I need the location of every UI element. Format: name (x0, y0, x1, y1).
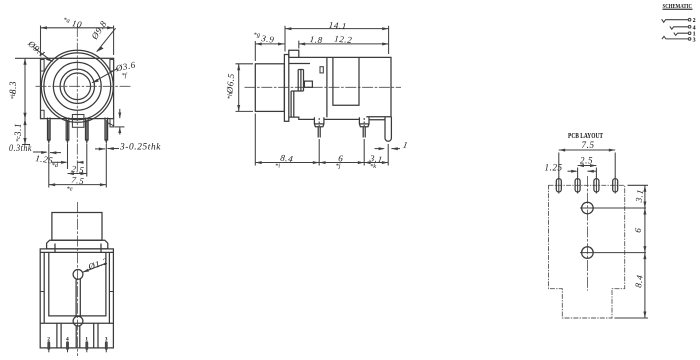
label 0.3thk with leader (9, 143, 61, 154)
dimension 1 (right tab) (105, 109, 124, 135)
svg-text:*i: *i (275, 163, 280, 170)
body square outline (41, 58, 114, 118)
leader D9.8 (89, 19, 116, 52)
svg-text:*c: *c (15, 136, 22, 142)
svg-text:3.1: 3.1 (633, 188, 645, 203)
pad 1 (556, 177, 561, 194)
center slot (76, 279, 80, 317)
svg-text:*d: *d (52, 162, 59, 169)
pad 2 (575, 177, 580, 194)
body front section line (326, 57, 328, 117)
svg-text:*k: *k (370, 163, 376, 170)
inner wall right (109, 252, 113, 323)
tab right top (110, 60, 114, 72)
tab left top (41, 60, 45, 72)
svg-text:2.5: 2.5 (71, 164, 85, 176)
svg-text:*a: *a (63, 17, 71, 25)
leader D1.2 (83, 256, 110, 272)
svg-text:3-0.25thk: 3-0.25thk (119, 142, 161, 152)
spring contact detail (289, 64, 313, 117)
dimension 7.5 *e (49, 144, 107, 193)
pin 3 (top view) (86, 118, 89, 146)
svg-text:12.2: 12.2 (334, 34, 353, 46)
pin 1 (top view) (48, 118, 51, 146)
svg-text:14.1: 14.1 (328, 20, 347, 32)
bent pin (right) (385, 117, 391, 142)
dimension 6 (pcb) (633, 208, 647, 253)
body outline (side view) (289, 57, 391, 119)
recess rectangle (333, 57, 359, 105)
footprint outline (549, 185, 625, 318)
dimension 14.1 (285, 20, 389, 54)
inner ring (60, 69, 94, 103)
svg-text:*h: *h (227, 93, 235, 100)
lower separators (57, 323, 98, 348)
pin 1 label and pin (front view) (85, 337, 88, 353)
flange plate (284, 55, 288, 122)
svg-text:*b: *b (10, 92, 17, 99)
dimension 8.4 (pcb) (615, 253, 649, 318)
dimension *b 8.3 (8, 58, 40, 119)
label 3-0.25thk with leader (95, 142, 161, 152)
SCHEMATIC title (663, 3, 693, 10)
centerline vertical (front view) (77, 202, 79, 356)
centerline horizontal (36, 85, 133, 87)
pin 2 label and pin (front view) (47, 337, 50, 353)
leader D3.6 (92, 59, 137, 82)
barrel (side view) (255, 64, 284, 112)
pin 4 label and pin (front view) (66, 337, 69, 353)
centerline vertical (76, 26, 78, 173)
svg-text:2.5: 2.5 (580, 156, 593, 166)
footprint centerline (586, 176, 588, 291)
svg-text:3: 3 (693, 38, 696, 44)
dimension 3.1 (pcb) (628, 185, 649, 208)
leg 1 (side view) (314, 117, 324, 137)
svg-text:10: 10 (71, 18, 83, 30)
svg-text:4: 4 (693, 25, 696, 31)
key tab on top (289, 50, 299, 57)
pad 4 (613, 177, 618, 194)
svg-text:8.4: 8.4 (280, 153, 294, 165)
dimension *a 10 (41, 17, 114, 55)
inner channel U (49, 252, 106, 316)
dimension 1.25 (pcb) (545, 163, 597, 173)
svg-text:0.3thk: 0.3thk (9, 143, 32, 153)
dimension 2.5 (68, 144, 87, 177)
dimension 2.5 (pcb) (578, 156, 597, 178)
dimension 1.8 / 12.2 (299, 34, 389, 49)
barrel circle D9.1 (44, 53, 111, 120)
svg-text:Ø6.5: Ø6.5 (224, 73, 236, 95)
PCB LAYOUT title (568, 132, 603, 140)
schematic wire pin 4 (670, 25, 696, 31)
pin 3 label and pin (front view) (105, 337, 108, 353)
svg-text:3.9: 3.9 (260, 33, 275, 45)
dimension 1.25 *d (35, 144, 84, 169)
tab bottom center (72, 115, 84, 128)
svg-text:7.5: 7.5 (71, 175, 85, 187)
dimension *g 3.9 (254, 32, 285, 62)
centerline horizontal (side view) (245, 86, 402, 88)
schematic wire pin 1 (674, 32, 696, 38)
svg-text:*e: *e (67, 186, 73, 193)
dimension *c 3.1 (13, 119, 30, 145)
svg-text:1.25: 1.25 (545, 163, 563, 173)
svg-text:8.3: 8.3 (8, 81, 18, 94)
svg-text:PCB LAYOUT: PCB LAYOUT (568, 132, 603, 140)
svg-text:3.1: 3.1 (13, 123, 23, 137)
svg-text:*g: *g (254, 32, 261, 39)
pin 4 (top view) (105, 118, 108, 146)
flange (front view) (47, 240, 108, 252)
svg-text:*j: *j (336, 163, 341, 170)
schematic wire pin 2 (662, 18, 696, 24)
hole circle D3.6 (64, 73, 91, 100)
hole circle D1.2 (73, 270, 83, 280)
pad 3 (594, 177, 599, 194)
inner wall left (40, 252, 44, 323)
hole 2 (pcb) (580, 247, 646, 259)
svg-text:1.8: 1.8 (309, 34, 323, 45)
dimension 8.4 *i / 6 *j / 3.1 *k (255, 114, 388, 171)
body (front view) (40, 249, 113, 348)
barrel (front view) (52, 213, 102, 241)
pin 2 (top view) (66, 118, 69, 146)
svg-text:7.5: 7.5 (582, 140, 595, 150)
barrel circle D6.5 (53, 62, 101, 110)
notch on left body edge (320, 67, 323, 73)
dimension 1 (bent pin width) (375, 140, 409, 151)
section line (40, 322, 113, 324)
dimension 7.5 (pcb) (559, 140, 615, 177)
schematic wire pin 3 (662, 36, 696, 43)
barrel circle D9.8 (41, 50, 113, 122)
svg-text:8.4: 8.4 (633, 274, 645, 288)
leg 2 (side view) (359, 117, 369, 137)
lower hole circle (73, 316, 83, 326)
svg-text:2: 2 (693, 18, 696, 24)
tab left bottom (41, 110, 45, 118)
body double top line (40, 251, 113, 253)
dimension D6.5 (224, 64, 253, 112)
hole 1 (pcb) (580, 202, 646, 214)
leader D9.1 (25, 38, 52, 62)
